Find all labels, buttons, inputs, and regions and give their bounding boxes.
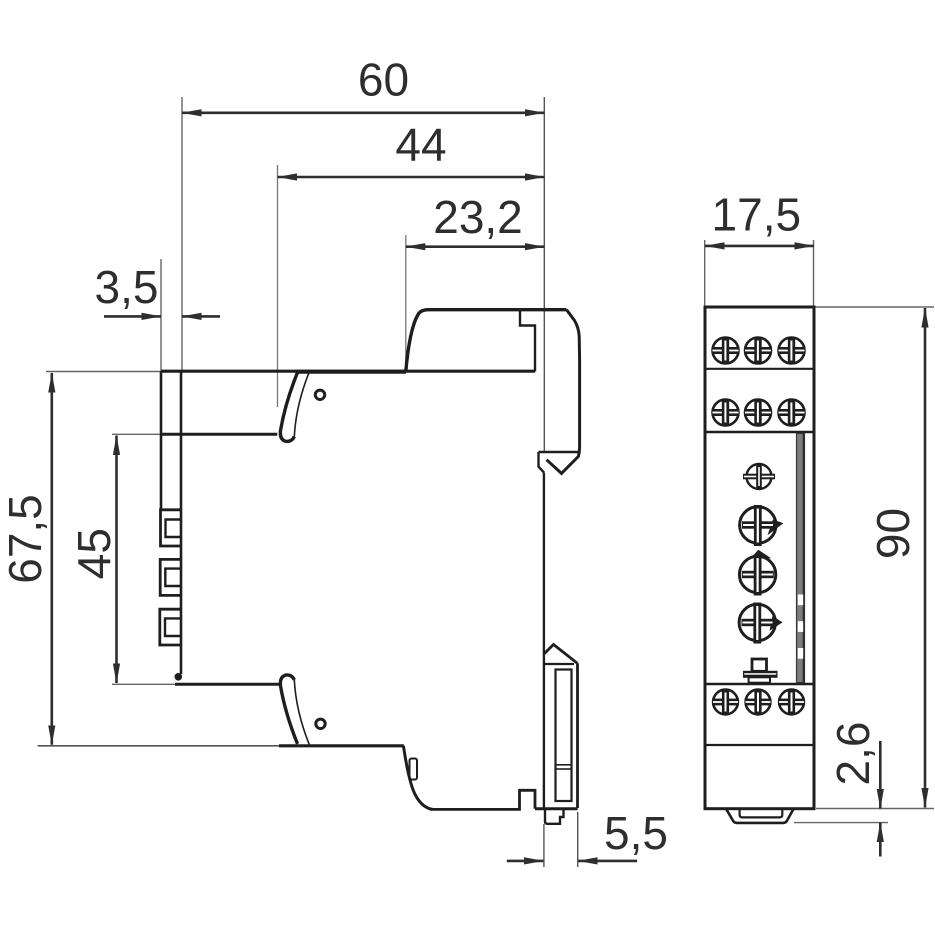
side view: bottom flange peak (544, 645, 578, 664)
side view: rear bottom junction dot (175, 673, 183, 681)
svg-text:90: 90 (867, 508, 919, 559)
side view: inner rect divider lines (556, 764, 572, 766)
side view: top edge thick overlay (44 shelf) (296, 370, 406, 374)
svg-text:44: 44 (395, 119, 446, 171)
dimension 17,5 (705, 245, 814, 248)
screw C3 (778, 689, 805, 715)
front view: switch base (749, 677, 770, 682)
extension x=577.7 below device (577, 812, 579, 867)
side view: top claw outer stroke (280, 373, 297, 442)
screw C2 (745, 689, 772, 715)
front view: dial 2 (739, 550, 775, 596)
side view: foot below flange (545, 809, 564, 824)
side view: clip 3 outer (160, 609, 181, 645)
extension line x=161 (clip rear plane) (160, 259, 162, 371)
front view: dial 3 (739, 603, 782, 644)
screw B1 (712, 399, 740, 426)
dimension 67,5 (50, 373, 53, 745)
extension line x=182 (rear body plane) (181, 97, 183, 371)
side view: bottom body edge y=745.8 thick (279, 744, 404, 747)
side view: clip 1 outer (161, 510, 182, 546)
extension x=543.9 below device (543, 824, 545, 867)
front view: divider 2 (705, 431, 814, 434)
side view: bottom claw inner stroke (294, 680, 309, 745)
dimension 45 (115, 436, 118, 684)
side view: rear wall (180, 372, 183, 675)
side view: small slot on bottom slant (410, 759, 418, 780)
side view: top flange bottom left step (539, 452, 545, 473)
extension line y=434.3 left (112, 433, 164, 435)
side view: bottom front curve down (403, 746, 432, 810)
dimension 23,2 (406, 245, 545, 248)
front view: divider 1 (705, 368, 814, 370)
extension line y=684.3 left (112, 683, 176, 685)
side view: bottom claw circle (316, 719, 325, 728)
front view: extension x=813.5 (813, 240, 815, 307)
side view: raised front top (23,2 part) (406, 310, 567, 372)
dimension 3,5 right tail (182, 315, 220, 318)
dimension 2,6 lower tail (879, 823, 882, 857)
front view: extension x=704.7 (704, 240, 706, 307)
side view: rear column left line (160, 372, 163, 511)
extension line x=544.3 (front plane) (543, 97, 545, 452)
front view: strip tick 1 (798, 595, 803, 606)
dimension 5,5 left tail (507, 860, 544, 863)
front view: extension y=307 right (814, 306, 934, 308)
front view: switch bar (743, 671, 778, 678)
side view: rear step edge y=434.3 (161, 433, 277, 436)
side view: bottom claw outer stroke (280, 675, 297, 744)
front view: small screw (743, 464, 775, 489)
side view: flange bottom edge (535, 807, 578, 810)
side view: clip 2 inner (165, 569, 180, 586)
front view: screws row 1 (712, 337, 740, 364)
side view: top body edge y=371.5 (161, 370, 535, 373)
extension line x=405.8 (23,2 plane) (405, 235, 407, 370)
svg-text:60: 60 (358, 54, 409, 106)
screw A2 (744, 337, 772, 364)
side view: clip 3 inner (165, 618, 180, 636)
screw B3 (778, 399, 806, 426)
side view: bottom flange inner line (545, 663, 575, 665)
side view: top claw inner stroke (294, 372, 309, 437)
dimension 44 (278, 176, 545, 179)
dimension 90 (924, 308, 927, 808)
svg-text:23,2: 23,2 (433, 191, 523, 243)
front view: bottom tab inner slot (740, 809, 783, 818)
svg-text:67,5: 67,5 (0, 494, 51, 584)
front view: strip tick 3 (798, 648, 803, 659)
side view: clip 1 inner (166, 520, 181, 538)
extension line x=277.5 (44 plane) (277, 165, 279, 407)
side view: clip 2 outer (160, 559, 181, 595)
screw C1 (712, 689, 739, 715)
front view: strip tick 2 (798, 621, 803, 632)
front view: extension y=822.6 (794, 822, 888, 824)
side view: bottom front bottom edge (430, 790, 535, 809)
side view: rear bottom edge (175, 683, 281, 686)
front view: extension y=808.5 right (816, 808, 934, 810)
front view: dial 1 (740, 505, 784, 546)
dimension 2,6 upper tail (879, 741, 882, 809)
side view: top notch (520, 310, 535, 372)
dimension 5,5 right tail (578, 860, 637, 863)
extension line y=371.5 left (46, 371, 161, 373)
screw B2 (744, 399, 772, 426)
side view: bottom flange right edge (576, 663, 579, 808)
front view: divider 3 (705, 683, 814, 686)
front view: switch small square (752, 659, 767, 671)
front view: outer body rect (705, 307, 814, 809)
dimension 3,5 left tail (104, 315, 161, 318)
side view: top flange right edge (547, 310, 580, 474)
svg-text:2,6: 2,6 (827, 722, 879, 786)
svg-text:3,5: 3,5 (95, 261, 159, 313)
extension line y=745.8 left (38, 745, 280, 747)
front view: bottom tab (726, 809, 794, 823)
svg-text:17,5: 17,5 (712, 189, 802, 241)
svg-text:5,5: 5,5 (604, 807, 668, 859)
side view: top claw circle (315, 390, 324, 399)
front view: divider 4 (705, 744, 814, 746)
side view: front face vertical line (543, 473, 545, 809)
side view: top flange bottom edge (539, 451, 579, 454)
screw A3 (778, 337, 806, 364)
front view: gray strip (797, 434, 805, 683)
dimension 60 (182, 112, 544, 115)
screw A1 (712, 337, 740, 364)
side view: bottom flange inner rect (556, 670, 572, 802)
svg-text:45: 45 (68, 528, 120, 579)
